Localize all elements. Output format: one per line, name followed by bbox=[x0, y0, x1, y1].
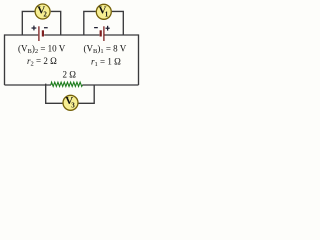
label + of B1 bbox=[106, 26, 110, 31]
svg-text:3: 3 bbox=[71, 101, 75, 109]
battery B1 positive plate bbox=[103, 26, 105, 41]
svg-text:(VB)2 = 10 V: (VB)2 = 10 V bbox=[18, 44, 66, 56]
resistor 2ohm zigzag bbox=[51, 82, 83, 86]
svg-text:2 Ω: 2 Ω bbox=[63, 70, 77, 80]
svg-text:(VB)1 = 8 V: (VB)1 = 8 V bbox=[84, 44, 127, 56]
battery B1 negative plate bbox=[100, 30, 102, 36]
label - of B1 bbox=[94, 27, 98, 28]
wire: right outer rail bbox=[138, 34, 140, 85]
wire: bottom right segment bbox=[82, 84, 138, 86]
svg-text:r2 = 2 Ω: r2 = 2 Ω bbox=[27, 56, 57, 68]
wire: V2 loop right lead and drop bbox=[51, 11, 61, 35]
wire: V1 loop left lead and drop bbox=[84, 11, 96, 35]
wire: top bus right segment bbox=[104, 34, 138, 36]
battery B2 negative plate bbox=[42, 30, 44, 36]
label - of B2 bbox=[44, 27, 48, 28]
wire: bottom left segment bbox=[5, 84, 52, 86]
svg-text:2: 2 bbox=[43, 10, 47, 18]
battery B2 positive plate bbox=[38, 26, 40, 41]
svg-text:r1 = 1 Ω: r1 = 1 Ω bbox=[91, 57, 121, 69]
wire: V3 loop left drop bbox=[46, 84, 63, 104]
voltmeter V1 bbox=[96, 4, 111, 19]
voltmeter V2 bbox=[35, 4, 50, 19]
wire: V2 loop left lead and drop bbox=[22, 11, 34, 35]
wire: V1 loop right lead and drop bbox=[112, 11, 123, 35]
voltmeter V3 bbox=[63, 95, 78, 110]
wire: top bus left segment bbox=[5, 34, 39, 36]
wire: left outer rail bbox=[4, 34, 6, 85]
label + of B2 bbox=[32, 26, 37, 31]
wire: top bus middle segment bbox=[44, 34, 99, 36]
svg-text:1: 1 bbox=[105, 11, 109, 19]
wire: V3 loop right drop bbox=[78, 85, 94, 103]
